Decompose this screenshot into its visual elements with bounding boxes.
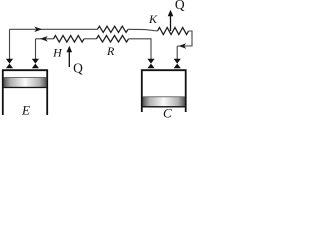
resistor R (upper element of regenerator): [98, 26, 129, 32]
wire: line B left corner down to cylinder E right port: [35, 39, 37, 60]
wire: return vertical down to cylinder C right port: [176, 46, 178, 60]
piston in cylinder C: [143, 97, 185, 107]
heat input arrow into H: [68, 52, 70, 68]
port valve symbol (hourglass) on cylinder E left: [6, 59, 13, 69]
wire: line B from corner to heater H lead: [36, 38, 54, 40]
wire: line B between H and R lower: [84, 38, 97, 40]
wire: line A left vertical from node above cylinder E up to top rail: [9, 29, 11, 59]
port valve symbol (hourglass) on cylinder C left: [147, 59, 154, 69]
svg-text:Q: Q: [73, 61, 83, 76]
arrowhead on line B pointing left: [40, 36, 48, 42]
svg-text:K: K: [148, 12, 158, 26]
svg-text:R: R: [106, 44, 115, 58]
wire: line A between R upper and cooler K: [128, 29, 158, 31]
svg-text:C: C: [163, 106, 172, 121]
cylinder E body (open bottom): [3, 70, 47, 115]
svg-text:E: E: [21, 102, 30, 117]
resistor R (lower element of regenerator): [97, 36, 129, 43]
piston in cylinder E: [4, 78, 46, 88]
heat rejection arrow out of K: [170, 16, 172, 32]
resistor H (heater): [54, 36, 85, 43]
svg-text:H: H: [52, 46, 63, 60]
wire: K output corner down and return left: [177, 31, 192, 46]
wire: line B from R lower to right corner, down to cylinder C left port: [129, 39, 152, 60]
svg-text:Q: Q: [175, 0, 185, 12]
port valve symbol (hourglass) on cylinder E right: [32, 59, 39, 69]
arrowhead on return line pointing left: [179, 43, 187, 49]
port valve symbol (hourglass) on cylinder C right: [174, 59, 181, 69]
arrowhead on line A pointing right: [34, 27, 42, 33]
cylinder C body (open bottom): [142, 70, 186, 112]
wire: line A top rail from left corner to regenerator R upper lead: [10, 28, 98, 30]
resistor K (cooler): [158, 27, 189, 34]
